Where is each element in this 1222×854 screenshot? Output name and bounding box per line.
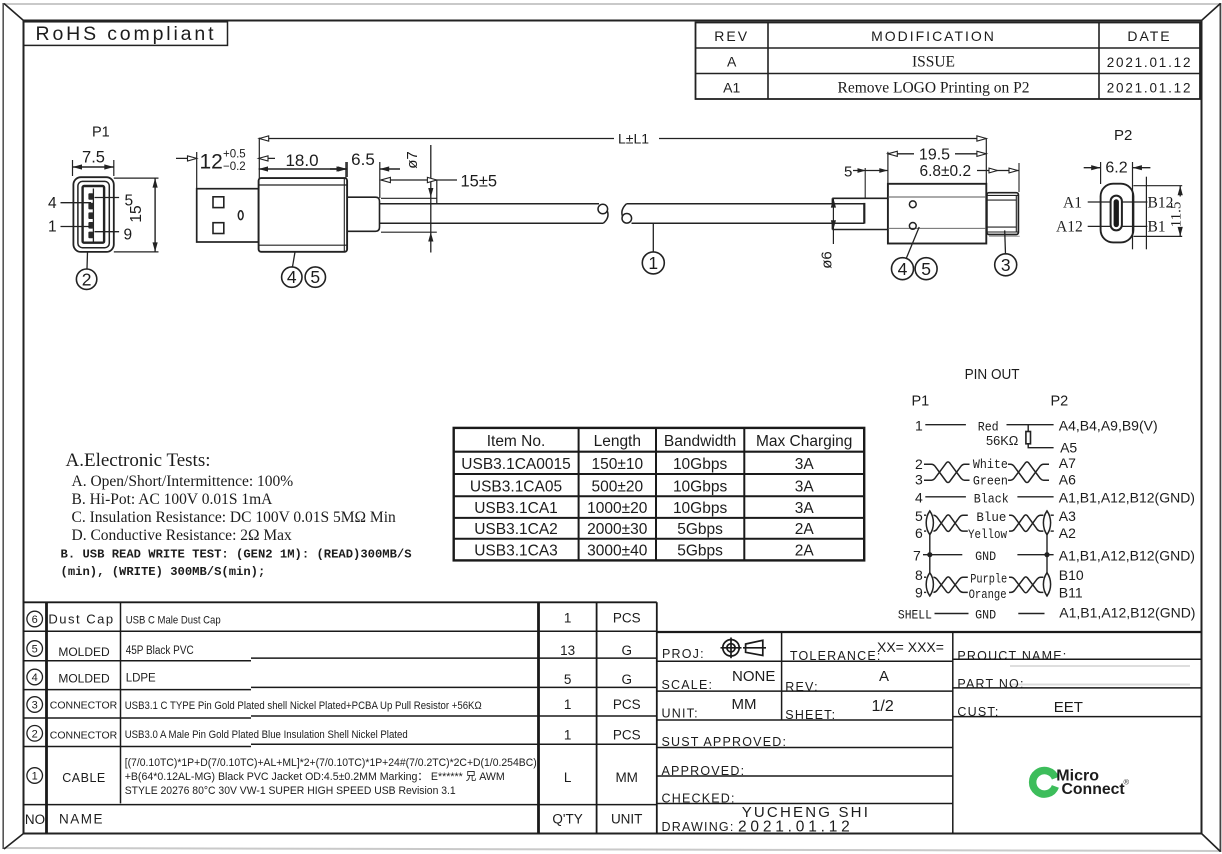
svg-text:A: A [879,668,889,685]
A12-B1 leader [1088,225,1111,227]
svg-text:12: 12 [200,151,223,174]
svg-text:USB3.1CA2: USB3.1CA2 [474,521,558,538]
svg-text:4: 4 [915,490,923,506]
15 dimension line [154,178,156,252]
C mold body [888,184,986,244]
svg-text:Item No.: Item No. [487,433,546,450]
svg-text:Black: Black [974,492,1009,507]
svg-text:9: 9 [915,585,923,601]
svg-text:A1,B1,A12,B12(GND): A1,B1,A12,B12(GND) [1059,605,1195,621]
svg-text:UNIT: UNIT [611,812,643,827]
svg-text:APPROVED:: APPROVED: [662,764,746,778]
svg-text:L: L [564,770,572,785]
svg-text:CHECKED:: CHECKED: [662,792,736,806]
strain relief boot [832,197,888,199]
svg-text:GND: GND [975,608,996,623]
svg-text:USB3.1CA1: USB3.1CA1 [474,500,558,517]
svg-text:LDPE: LDPE [126,673,156,685]
pin7 wire right [1017,554,1053,556]
svg-text:Blue: Blue [976,510,1006,525]
svg-text:UNIT:: UNIT: [662,707,699,721]
svg-text:5Gbps: 5Gbps [677,543,723,560]
shield bus right [1046,535,1048,573]
svg-text:Remove LOGO Printing on P2: Remove LOGO Printing on P2 [837,80,1029,97]
svg-text:SHEET:: SHEET: [785,708,836,722]
svg-text:ø7: ø7 [404,151,421,169]
shell wire left [935,613,969,615]
pin1 wire left [925,424,966,426]
L±L1 dimension line [259,138,614,140]
svg-text:15±5: 15±5 [461,173,498,191]
svg-text:5Gbps: 5Gbps [677,521,723,538]
stubs 8/9 [924,576,926,578]
19.5 dimension [888,153,914,155]
svg-text:P2: P2 [1051,394,1069,410]
svg-text:6.8±0.2: 6.8±0.2 [920,163,972,180]
tongue edge [92,189,94,242]
corner diagonal bottom-right [1202,834,1221,852]
svg-text:1: 1 [915,418,923,434]
cable bottom line right segment [632,222,865,224]
svg-text:2: 2 [32,728,38,740]
svg-text:NONE: NONE [732,668,775,685]
svg-text:[(7/0.10TC)*1P+D(7/0.10TC)+AL+: [(7/0.10TC)*1P+D(7/0.10TC)+AL+ML]*2+(7/0… [125,757,537,769]
outer border top [3,3,1221,5]
svg-text:5: 5 [921,259,931,279]
svg-text:RoHS compliant: RoHS compliant [36,23,215,45]
svg-text:1: 1 [564,611,572,626]
svg-text:GND: GND [975,549,996,564]
svg-text:SHELL: SHELL [898,608,932,623]
shell slot oval [238,211,243,220]
svg-text:STYLE 20276 80°C 30V VW-1 SUPE: STYLE 20276 80°C 30V VW-1 SUPER HIGH SPE… [125,785,456,797]
circled 5 (A side) [305,267,325,287]
svg-text:A2: A2 [1059,525,1076,541]
svg-text:2000±30: 2000±30 [587,521,648,538]
C receptacle outline [1101,184,1134,243]
svg-text:A12: A12 [1056,219,1083,236]
cable end inside boot [863,203,865,224]
svg-text:18.0: 18.0 [285,151,318,170]
svg-text:Q'TY: Q'TY [552,812,582,827]
svg-text:4: 4 [48,195,57,212]
svg-text:SCALE:: SCALE: [662,678,714,692]
C mold inner lines [888,196,986,198]
circled item numbers [27,611,43,783]
cable bottom line left segment [380,222,604,224]
twisted pair 5/6 left [933,515,967,531]
svg-text:G: G [621,672,632,687]
svg-text:B1: B1 [1148,219,1166,236]
svg-text:Max Charging: Max Charging [756,433,853,450]
svg-text:SUST APPROVED:: SUST APPROVED: [662,735,788,749]
svg-text:CABLE: CABLE [62,771,106,785]
svg-text:10Gbps: 10Gbps [673,478,728,495]
svg-text:A6: A6 [1059,472,1076,488]
overmold body [259,178,348,252]
outer border right [1219,3,1221,852]
svg-text:1: 1 [564,697,572,712]
cable top line left segment [380,203,600,205]
svg-text:5: 5 [310,267,320,287]
resistor body [1026,432,1031,444]
svg-text:P1: P1 [92,125,110,141]
svg-text:MOLDED: MOLDED [58,645,110,659]
svg-text:REV: REV [714,28,749,44]
svg-text:USB3.1 C TYPE Pin Gold Plated: USB3.1 C TYPE Pin Gold Plated shell Nick… [125,700,482,712]
twisted pair 5/6 right [1009,515,1043,531]
svg-text:PROJ:: PROJ: [662,647,705,661]
leader to circled 4,5 (A side) [293,252,296,267]
svg-text:10Gbps: 10Gbps [673,456,728,473]
svg-text:MODIFICATION: MODIFICATION [871,28,996,44]
svg-text:A. Open/Short/Intermittence: 1: A. Open/Short/Intermittence: 100% [72,473,294,490]
svg-text:B10: B10 [1059,567,1084,583]
svg-text:USB C Male Dust Cap: USB C Male Dust Cap [126,615,221,627]
svg-text:PART NO:: PART NO: [957,677,1024,691]
svg-text:A1,B1,A12,B12(GND): A1,B1,A12,B12(GND) [1059,490,1195,506]
shield vesica left 5/6 [926,511,933,535]
svg-text:A5: A5 [1060,440,1077,456]
svg-text:2021.01.12: 2021.01.12 [1107,80,1193,95]
svg-text:1: 1 [648,253,658,273]
svg-text:CONNECTOR: CONNECTOR [50,700,118,712]
svg-text:6.2: 6.2 [1105,160,1127,177]
svg-text:USB3.1CA0015: USB3.1CA0015 [461,456,570,473]
neck bottom ext line [381,231,437,233]
shield vesica right 5/6 [1043,511,1050,535]
svg-text:EET: EET [1054,699,1083,716]
svg-text:MOLDED: MOLDED [58,672,110,686]
circled 5 (C side) [915,258,937,280]
svg-text:DATE: DATE [1127,28,1171,44]
svg-text:P2: P2 [1114,127,1132,144]
svg-text:3000±40: 3000±40 [587,543,648,560]
svg-text:1: 1 [564,728,572,743]
svg-text:45P Black PVC: 45P Black PVC [126,645,194,657]
twisted pair 8/9 right [1009,577,1043,593]
svg-text:7: 7 [913,548,921,564]
svg-text:PCS: PCS [613,697,641,712]
outer border left [2,3,4,849]
mold left edge ext up [887,152,889,184]
mold right inner edge [343,179,345,252]
cable top line right segment [626,203,864,205]
cable break left loop [598,204,608,214]
mold left ext line up [258,138,260,178]
svg-text:19.5: 19.5 [919,147,950,164]
leader to circled 2 [86,252,89,269]
mold inner top line [259,184,348,186]
7.5 dimension line [73,166,114,168]
svg-text:8: 8 [915,567,923,583]
svg-text:5: 5 [915,508,923,524]
shell hole 2 [213,223,224,234]
stubs to A3/A2 [1051,514,1054,516]
svg-text:2021.01.12: 2021.01.12 [1107,55,1193,70]
mold hole 1 [909,201,916,208]
svg-text:10Gbps: 10Gbps [673,500,728,517]
svg-text:NAME: NAME [59,812,104,827]
svg-text:®: ® [1124,778,1130,787]
svg-text:7.5: 7.5 [82,149,105,167]
svg-text:+0.5: +0.5 [223,149,246,161]
svg-text:CUST:: CUST: [957,705,999,719]
svg-text:2021.01.12: 2021.01.12 [738,819,854,836]
svg-text:15: 15 [128,205,145,222]
twisted pair 8/9 left [933,577,967,593]
svg-text:1/2: 1/2 [872,698,894,715]
svg-text:3A: 3A [795,500,815,517]
circled 4 (A side) [282,267,302,287]
svg-text:Bandwidth: Bandwidth [664,433,736,450]
leader to circled 1 [652,223,654,252]
svg-text:ISSUE: ISSUE [912,54,955,71]
svg-text:A1,B1,A12,B12(GND): A1,B1,A12,B12(GND) [1059,548,1195,564]
svg-text:DRAWING:: DRAWING: [662,820,735,834]
svg-text:4: 4 [287,267,297,287]
corner diagonal top-left [4,4,24,21]
outer border bottom [3,848,1221,851]
svg-text:1: 1 [32,771,38,783]
svg-text:PROUCT NAME:: PROUCT NAME: [957,649,1067,663]
svg-text:A3: A3 [1059,508,1076,524]
svg-text:A7: A7 [1059,455,1076,471]
svg-text:CONNECTOR: CONNECTOR [50,730,118,742]
resistor drop wire [1027,425,1029,432]
svg-text:5: 5 [844,164,852,181]
svg-text:−0.2: −0.2 [223,161,246,173]
circled 3 [995,254,1017,276]
svg-text:ø6: ø6 [819,251,836,269]
svg-text:3: 3 [32,700,38,712]
twisted pair 2/3 left [924,464,970,482]
svg-text:1: 1 [48,219,57,236]
C slot outer pill [1111,196,1122,231]
svg-text:3A: 3A [795,456,815,473]
svg-text:Connect: Connect [1062,781,1126,798]
svg-text:+B(64*0.12AL-MG) Black PVC Ja: +B(64*0.12AL-MG) Black PVC Jacket OD:4.5… [125,771,505,783]
neck top ext line [381,197,437,199]
shell wire right [1018,613,1044,615]
svg-text:Dust Cap: Dust Cap [48,612,114,627]
svg-text:3A: 3A [795,478,815,495]
svg-text:A.Electronic Tests:: A.Electronic Tests: [66,450,211,471]
cable break right loop [622,214,632,224]
svg-text:PIN OUT: PIN OUT [965,366,1020,383]
circled 4 (C side) [892,258,914,280]
pin 5 leader [95,197,120,199]
svg-text:5: 5 [564,672,572,687]
C slot inner bar [1114,199,1119,227]
wire stubs 5/6 [924,514,926,516]
phi6 dimension [832,198,834,244]
svg-text:B. Hi-Pot: AC 100V 0.01S 1mA: B. Hi-Pot: AC 100V 0.01S 1mA [72,491,274,508]
svg-text:Green: Green [973,474,1008,489]
pin 9 leader [95,231,120,233]
svg-text:3: 3 [1001,255,1011,275]
strain relief neck [347,197,379,231]
svg-text:PCS: PCS [613,611,641,626]
svg-text:MM: MM [615,770,638,785]
svg-text:PCS: PCS [613,728,641,743]
svg-text:Yellow: Yellow [968,527,1007,542]
corner diagonal bottom-left [4,834,24,850]
pin7 wire left [923,554,962,556]
corner diagonal top-right [1202,4,1221,21]
shield vesica left 8/9 [926,573,933,596]
svg-text:G: G [621,643,632,658]
svg-text:5: 5 [32,644,38,656]
pin4 wire left [925,496,966,498]
svg-text:TOLERANCE:: TOLERANCE: [790,649,882,663]
USB-A metal shell [197,189,259,242]
svg-text:11.5: 11.5 [1169,202,1185,228]
svg-text:A4,B4,A9,B9(V): A4,B4,A9,B9(V) [1059,418,1158,434]
shield bus left [929,535,931,573]
MicroConnect logo [1033,768,1130,798]
svg-text:B. USB READ WRITE TEST: (GEN2: B. USB READ WRITE TEST: (GEN2 1M): (READ… [61,548,412,562]
svg-text:3: 3 [915,472,923,488]
svg-text:9: 9 [124,227,133,244]
svg-text:Purple: Purple [970,572,1007,587]
USB-A receptacle inner shell [83,186,105,243]
svg-text:A1: A1 [723,80,740,96]
svg-text:B11: B11 [1059,585,1083,601]
svg-text:2A: 2A [795,543,815,560]
svg-text:A: A [727,54,737,70]
svg-text:White: White [973,457,1008,472]
svg-text:4: 4 [898,259,908,279]
resistor to A5 wire [1028,444,1053,448]
svg-text:6: 6 [915,525,923,541]
twisted pair 2/3 right [1008,464,1049,482]
circled 1 [642,252,664,274]
svg-text:USB3.1CA05: USB3.1CA05 [470,478,562,495]
svg-text:XX= XXX=: XX= XXX= [877,639,944,655]
svg-text:MM: MM [732,696,757,713]
mold inner bottom line [259,244,348,246]
leader to circled 3 [1004,230,1007,254]
svg-text:USB3.0 A Male Pin Gold Plated: USB3.0 A Male Pin Gold Plated Blue Insul… [125,729,408,741]
leader to circled 4,5 (C side) [906,227,919,258]
pin 1 leader [61,226,92,228]
svg-text:Length: Length [594,433,641,450]
svg-text:2A: 2A [795,521,815,538]
svg-text:56KΩ: 56KΩ [986,433,1019,448]
svg-text:500±20: 500±20 [591,478,643,495]
svg-text:C. Insulation Resistance: DC 1: C. Insulation Resistance: DC 100V 0.01S … [72,509,397,526]
svg-text:2: 2 [915,456,923,472]
svg-text:13: 13 [560,643,575,658]
junction dot left [927,552,932,557]
junction dot right [1044,552,1049,557]
pin 4 leader [61,202,92,204]
svg-text:2: 2 [82,269,92,289]
svg-text:6: 6 [32,614,38,626]
svg-text:USB3.1CA3: USB3.1CA3 [474,543,558,560]
svg-text:P1: P1 [912,394,930,410]
svg-text:REV:: REV: [785,680,819,694]
A1-B12 leader [1088,201,1111,203]
shield vesica right 8/9 [1043,573,1050,596]
svg-text:D. Conductive Resistance: 2Ω M: D. Conductive Resistance: 2Ω Max [72,527,293,544]
mold hole 2 [909,223,916,230]
svg-text:150±10: 150±10 [591,456,643,473]
USB-A receptacle outer shell [73,177,113,252]
shell hole 1 [213,197,224,208]
11.5 dimension [1133,185,1182,187]
svg-text:Orange: Orange [969,587,1007,602]
circled 2 [76,269,96,289]
contacts [88,193,93,238]
svg-text:6.5: 6.5 [351,150,375,169]
svg-text:NO: NO [25,812,45,827]
svg-text:(min), (WRITE) 300MB/S(min);: (min), (WRITE) 300MB/S(min); [61,565,266,579]
vesica tip marks [927,511,1049,596]
svg-text:A1: A1 [1063,195,1082,212]
C metal tip [987,193,1019,235]
pin1 wire right [1007,424,1054,426]
svg-text:1000±20: 1000±20 [587,500,648,517]
svg-text:L±L1: L±L1 [618,131,649,147]
pin4 wire right [1017,496,1053,498]
projection symbols [721,638,767,659]
svg-text:4: 4 [32,672,38,684]
